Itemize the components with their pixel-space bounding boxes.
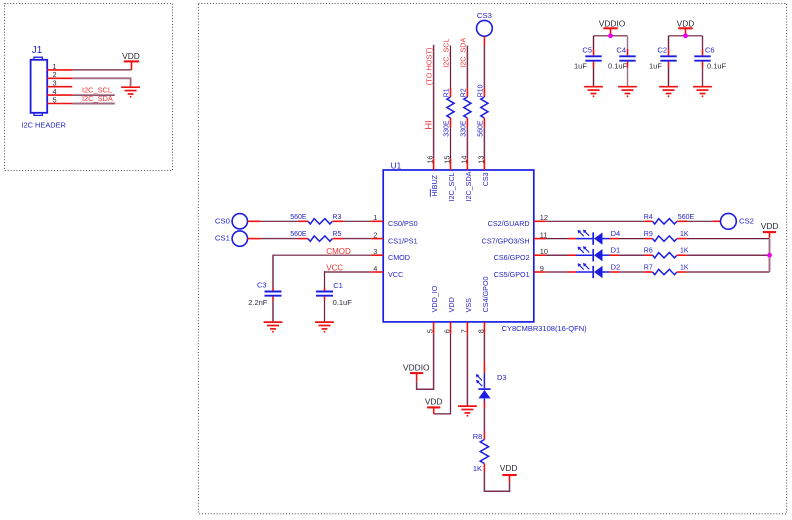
wire U1 pin to D1: [546, 254, 568, 256]
wire R7 to VDD rail: [677, 271, 687, 273]
svg-text:CMOD: CMOD: [326, 247, 351, 256]
J1 pin 4: [47, 94, 73, 96]
svg-text:5: 5: [426, 329, 435, 333]
svg-text:560E: 560E: [678, 214, 695, 221]
svg-text:0.1uF: 0.1uF: [707, 61, 727, 70]
ground at C6: [693, 87, 712, 97]
svg-text:VDD: VDD: [447, 297, 456, 312]
U1 pin 1 CS0/PS0: [371, 220, 383, 222]
junction VDD: [683, 33, 688, 38]
wire R6 to VDD rail: [677, 254, 687, 256]
svg-text:560E: 560E: [290, 214, 307, 221]
LED D1: [593, 249, 602, 261]
svg-text:R7: R7: [644, 264, 653, 271]
svg-text:2.2nF: 2.2nF: [248, 298, 268, 307]
ground at C4: [618, 87, 637, 97]
wire I2C_SDA at J1: [73, 103, 115, 105]
capacitor C6 0.1uF: [702, 49, 704, 55]
svg-text:CY8CMBR3108(16-QFN): CY8CMBR3108(16-QFN): [502, 324, 588, 333]
svg-text:R5: R5: [332, 231, 341, 238]
svg-text:C4: C4: [616, 45, 626, 54]
wire VDD cap rail: [669, 35, 703, 37]
U1 pin 10 CS6/GPO2: [534, 254, 546, 256]
wire D1 to R6: [603, 254, 610, 256]
svg-text:D2: D2: [611, 263, 621, 272]
dotted frame small: [5, 4, 173, 171]
resistor R2 330E: [464, 97, 471, 118]
svg-text:VDD: VDD: [500, 463, 518, 473]
svg-text:1K: 1K: [680, 231, 689, 238]
junction VDD rail: [767, 253, 772, 258]
wire C2 to ground: [668, 68, 670, 87]
U1 pin 15 (top): [450, 158, 452, 170]
svg-text:D3: D3: [497, 373, 507, 382]
svg-text:C1: C1: [333, 281, 343, 290]
wire C6 to ground: [702, 68, 704, 87]
svg-text:VCC: VCC: [388, 270, 403, 279]
dotted frame main: [198, 4, 786, 514]
power VDD at pin6: [433, 408, 435, 414]
J1 pin 1: [47, 69, 73, 71]
capacitor C2 1uF: [668, 49, 670, 55]
svg-text:VDD: VDD: [677, 19, 695, 29]
wire R8 to VDD: [483, 464, 485, 472]
resistor R6 1K: [653, 253, 677, 258]
capacitor C3 2.2nF: [272, 288, 274, 291]
svg-text:C6: C6: [705, 45, 715, 54]
wire C3 to ground: [272, 301, 274, 322]
power VDD at R8: [509, 476, 511, 482]
wire D2 to R7: [603, 271, 610, 273]
svg-text:VSS: VSS: [464, 298, 473, 313]
svg-text:3: 3: [373, 247, 377, 256]
svg-text:7: 7: [459, 329, 468, 333]
svg-text:J1: J1: [32, 45, 43, 56]
power VDDIO at caps: [603, 27, 617, 29]
wire U1 pin to D4: [546, 238, 568, 240]
wire U1 pin6 to VDD: [434, 334, 451, 414]
resistor R7 1K: [653, 269, 677, 274]
svg-text:560E: 560E: [290, 231, 307, 238]
svg-text:CS1/PS1: CS1/PS1: [388, 236, 418, 245]
node CS0: [232, 214, 247, 229]
svg-text:I2C_SCL: I2C_SCL: [442, 39, 451, 68]
svg-text:HI: HI: [424, 120, 435, 130]
U1 pin 11 CS7/GPO3/SH: [534, 238, 546, 240]
svg-text:I2C_SCL: I2C_SCL: [447, 172, 456, 201]
wire VCC: [325, 271, 372, 273]
svg-text:CS2/GUARD: CS2/GUARD: [488, 219, 530, 228]
svg-text:CS5/GPO1: CS5/GPO1: [494, 270, 530, 279]
svg-text:D4: D4: [611, 229, 621, 238]
U1 pin 13 (top): [483, 158, 485, 170]
svg-text:VDD_IO: VDD_IO: [430, 285, 439, 312]
connector J1: [31, 60, 48, 113]
wire C5 to ground: [593, 68, 595, 87]
capacitor C1 0.1uF: [324, 288, 326, 291]
svg-text:6: 6: [443, 329, 452, 333]
U1 pin 12 CS2/GUARD: [534, 220, 546, 222]
svg-text:R6: R6: [644, 248, 653, 255]
svg-text:HIBUZ: HIBUZ: [430, 174, 439, 196]
svg-text:VCC: VCC: [326, 263, 343, 272]
svg-text:C3: C3: [257, 280, 267, 289]
svg-text:CS4/GPO0: CS4/GPO0: [481, 276, 490, 312]
wire U1 pin12 to R4: [546, 220, 645, 222]
ground at C2: [659, 87, 678, 97]
wire R4 to CS2: [677, 220, 687, 222]
U1 pin 7 VSS (bottom): [466, 322, 468, 334]
svg-text:VDDIO: VDDIO: [599, 19, 626, 29]
svg-text:R2: R2: [460, 88, 467, 97]
wire VDD rail vertical: [769, 239, 771, 272]
svg-text:CS3: CS3: [477, 11, 492, 20]
resistor R5 560E: [308, 236, 332, 241]
svg-text:330E: 330E: [444, 120, 451, 137]
capacitor C4 0.1uF: [627, 49, 629, 55]
U1 pin 9 CS5/GPO1: [534, 271, 546, 273]
svg-text:1K: 1K: [680, 248, 689, 255]
svg-text:CS7/GPO3/SH: CS7/GPO3/SH: [482, 236, 530, 245]
U1 pin 3 CMOD: [371, 254, 383, 256]
resistor R1 330E: [447, 97, 454, 118]
svg-text:1K: 1K: [680, 264, 689, 271]
wire I2C_SCL column (pin15): [450, 46, 452, 89]
svg-text:VDDIO: VDDIO: [403, 363, 430, 373]
wire U1 pin8 to D3: [483, 334, 485, 362]
svg-text:CS6/GPO2: CS6/GPO2: [494, 253, 530, 262]
svg-text:0.1uF: 0.1uF: [608, 61, 628, 70]
LED D3: [478, 389, 490, 398]
resistor R8 1K: [480, 440, 488, 464]
svg-text:CS2: CS2: [739, 216, 754, 225]
LED D2: [593, 266, 602, 278]
svg-text:330E: 330E: [460, 120, 467, 137]
wire R1 to U1 pin15: [450, 118, 452, 127]
wire R5 to U1 pin2: [333, 238, 343, 240]
wire J1 pin2 to ground: [73, 78, 131, 86]
svg-text:5: 5: [52, 95, 56, 104]
svg-text:R1: R1: [444, 88, 451, 97]
node CS1: [232, 231, 247, 246]
junction VDDIO: [608, 33, 613, 38]
wire CS0 to R3: [248, 220, 261, 222]
J1 pin 2: [47, 77, 73, 79]
svg-text:I2C_SDA: I2C_SDA: [464, 171, 473, 201]
node CS3: [477, 20, 493, 36]
svg-text:560E: 560E: [477, 120, 484, 137]
wire D4 to R9: [603, 238, 610, 240]
svg-text:1uF: 1uF: [574, 61, 587, 70]
ground at C1: [315, 322, 334, 332]
wire U1 pin5 to VDDIO: [417, 334, 434, 389]
ground at C5: [584, 87, 603, 97]
wire VDDIO cap rail: [594, 35, 628, 37]
svg-text:CS0/PS0: CS0/PS0: [388, 219, 418, 228]
ground at pin7 VSS: [458, 406, 477, 416]
wire C1 to ground: [324, 301, 326, 322]
resistor R9 1K: [653, 236, 677, 241]
wire J1 pin1 to VDD: [73, 69, 132, 71]
wire I2C_SCL at J1: [73, 94, 115, 96]
wire U1 pin to D2: [546, 271, 568, 273]
wire CMOD: [273, 254, 371, 256]
svg-text:2: 2: [373, 231, 377, 240]
J1 pin 3: [47, 86, 72, 88]
svg-text:9: 9: [540, 264, 544, 273]
svg-text:CS1: CS1: [215, 234, 230, 243]
svg-text:0.1uF: 0.1uF: [333, 298, 353, 307]
wire I2C_SDA column (pin14): [466, 46, 468, 89]
U1 pin 16 (top): [433, 158, 435, 170]
U1 pin 6 VDD (bottom): [450, 322, 452, 334]
wire CS3 to R10: [483, 36, 485, 45]
svg-text:R8: R8: [473, 432, 483, 441]
svg-text:VDD: VDD: [122, 51, 140, 61]
U1 pin 8 CS4/GPO0 (bottom): [483, 322, 485, 334]
capacitor C5 1uF: [593, 49, 595, 55]
svg-text:1uF: 1uF: [649, 61, 662, 70]
svg-text:8: 8: [476, 329, 485, 333]
svg-text:VDD: VDD: [425, 397, 443, 407]
svg-text:I2C_SDA: I2C_SDA: [458, 38, 467, 68]
resistor R4 560E: [653, 219, 677, 224]
IC U1 CY8CMBR3108 body: [383, 170, 534, 322]
wire R10 to U1 pin13: [483, 118, 485, 127]
svg-text:R4: R4: [644, 214, 653, 221]
svg-text:R10: R10: [477, 84, 484, 97]
wire CS1 to R5: [248, 238, 261, 240]
node CS2: [721, 213, 737, 229]
wire R9 to VDD rail: [677, 238, 687, 240]
svg-text:VDD: VDD: [761, 221, 779, 231]
power VDD right rail: [763, 231, 776, 233]
U1 pin 2 CS1/PS1: [371, 238, 383, 240]
resistor R10 560E: [481, 97, 488, 118]
svg-text:1: 1: [373, 213, 377, 222]
U1 pin 5 VDD_IO (bottom): [433, 322, 435, 334]
svg-text:(TO HOST): (TO HOST): [425, 48, 434, 86]
J1 pin 5: [47, 103, 73, 105]
svg-text:R9: R9: [644, 231, 653, 238]
LED D4: [593, 232, 602, 244]
resistor R3 560E: [308, 219, 332, 224]
wire R3 to U1 pin1: [333, 220, 343, 222]
ground at J1: [121, 87, 140, 97]
U1 pin 14 (top): [466, 158, 468, 170]
svg-text:CS3: CS3: [481, 172, 490, 186]
power VDDIO at pin5: [416, 374, 418, 382]
svg-text:CS0: CS0: [215, 216, 230, 225]
svg-text:I2C_SDA: I2C_SDA: [82, 94, 113, 103]
svg-text:U1: U1: [391, 160, 402, 170]
wire C4 to ground: [627, 68, 629, 87]
power VDD at caps: [678, 27, 692, 29]
svg-text:I2C HEADER: I2C HEADER: [22, 121, 66, 130]
wire D3 to R8: [483, 398, 485, 401]
U1 pin 4 VCC: [371, 271, 383, 273]
svg-text:1K: 1K: [473, 464, 482, 473]
svg-text:C2: C2: [657, 45, 667, 54]
svg-text:C5: C5: [582, 45, 592, 54]
svg-text:R3: R3: [332, 214, 341, 221]
wire U1 pin7 to ground: [466, 334, 468, 406]
svg-text:D1: D1: [611, 246, 621, 255]
power VDD at J1: [124, 60, 139, 62]
wire HI net (pin16): [433, 45, 435, 159]
ground at C3: [264, 322, 283, 332]
svg-text:CMOD: CMOD: [388, 253, 410, 262]
svg-text:4: 4: [373, 264, 377, 273]
wire R2 to U1 pin14: [466, 118, 468, 127]
